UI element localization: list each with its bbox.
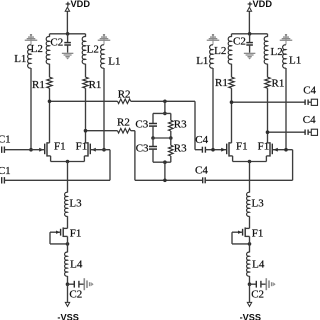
wire VDD stem (right half)	[248, 11, 250, 34]
gate arrow F1 (left half right)	[91, 148, 95, 152]
wire bottom rail right	[205, 179, 292, 181]
wire C2 to ground (left half)	[67, 45, 69, 53]
resistor R1 (left half right)	[83, 77, 88, 88]
svg-text:L2: L2	[87, 44, 99, 56]
svg-text:+VDD: +VDD	[65, 0, 90, 9]
svg-text:L2: L2	[271, 46, 283, 58]
wire L3 to F1 (left half)	[67, 216, 69, 228]
wire C3 branch mid-upper	[152, 126, 154, 138]
wire VDD stem (left half)	[66, 11, 68, 34]
svg-text:C4: C4	[303, 85, 316, 97]
inductor L2 (left half right)	[82, 37, 85, 64]
svg-text:L2: L2	[31, 43, 43, 55]
capacitor C1 (lower)	[1, 177, 3, 183]
wire drain column right (right half)	[267, 88, 269, 143]
svg-text:F1: F1	[70, 227, 82, 239]
junction gate-source tie (right half)	[248, 242, 252, 246]
wire L2-R1 left (right half)	[231, 64, 233, 77]
svg-text:R1: R1	[215, 77, 228, 89]
wire L3 to F1 (right half)	[249, 216, 251, 228]
svg-text:R1: R1	[272, 78, 285, 90]
svg-text:C3: C3	[135, 119, 148, 131]
wire to port upper	[308, 101, 311, 103]
junction L1 left gate (right half)	[211, 148, 215, 152]
wire VSS stem (left half)	[67, 284, 69, 302]
wire C3 branch top	[152, 113, 154, 123]
wire drain column left (left half)	[49, 88, 51, 143]
wire output lower (right half)	[268, 131, 305, 133]
junction L1 right gate (right half)	[284, 148, 288, 152]
gate arrow F1 current source (right half)	[238, 231, 242, 234]
transistor F1 (right half left of pair)	[226, 144, 228, 155]
ground (right) at C2 (right half bottom)	[266, 278, 268, 290]
svg-text:R2: R2	[118, 88, 131, 100]
inductor L2 (right half right)	[264, 37, 267, 64]
resistor R2 (lower)	[118, 128, 131, 133]
junction common source (right half)	[248, 160, 252, 164]
svg-text:C2: C2	[233, 36, 246, 48]
wire corner down to C4 upper	[194, 101, 196, 149]
wire F1 to L4 (left half)	[67, 236, 69, 252]
ground below C2 (left half)	[62, 53, 74, 54]
wire to C2 bottom (left half)	[68, 283, 75, 285]
ground (up) over L1 right (left half)	[103, 34, 105, 35]
capacitor C4 (output lower)	[304, 130, 306, 135]
svg-text:C2: C2	[50, 36, 63, 48]
wire R3 branch mid-lower	[170, 138, 172, 145]
svg-text:F1: F1	[236, 140, 248, 152]
wire C2 stub (right half)	[249, 34, 251, 43]
capacitor C2 (left half bottom)	[73, 281, 75, 288]
wire output upper (right half)	[232, 101, 305, 103]
transistor F1 (left half left of pair)	[44, 144, 46, 155]
capacitor C1 (upper)	[1, 147, 3, 153]
transistor F1 (left half right of pair)	[89, 144, 91, 155]
capacitor C4 (output upper)	[304, 100, 306, 105]
wire C1 lower rail	[4, 179, 110, 181]
junction lower R2 at drain (left half)	[84, 129, 88, 133]
wire lower R2 to corner	[131, 130, 135, 132]
wire upper R2 to corner	[131, 100, 195, 102]
svg-text:F1: F1	[54, 140, 66, 152]
junction network top entry	[163, 100, 167, 104]
junction R3 midpoint	[169, 136, 173, 140]
resistor R1 (left half left)	[47, 77, 52, 88]
inductor L2 (right half left)	[228, 37, 231, 64]
junction L1 left gate (left half)	[29, 148, 33, 152]
wire R3 branch top	[170, 113, 172, 120]
junction output lower at drain	[266, 130, 270, 134]
wire right-gate rise (right half)	[292, 150, 294, 181]
junction upper R2 at drain (left half)	[48, 100, 52, 104]
wire right gate (left half)	[90, 149, 110, 151]
capacitor C4 (upper middle)	[201, 147, 203, 153]
wire C2 to ground (right half)	[249, 45, 251, 53]
wire VDD rail (left half)	[50, 33, 86, 35]
wire L1 right to gate (left half)	[103, 68, 105, 150]
inductor L1 (right half right)	[283, 45, 286, 68]
ground (up) over L1 left (right half)	[212, 34, 214, 35]
inductor L3 (right half)	[247, 192, 250, 216]
svg-text:F1: F1	[76, 140, 88, 152]
wire to port lower	[308, 131, 311, 133]
wire common source (right half)	[233, 161, 267, 163]
wire tail to L3 (left half)	[67, 162, 69, 193]
wire C3 branch mid-lower	[152, 138, 154, 147]
junction C3 midpoint	[151, 136, 155, 140]
gate arrow F1 (left half left)	[39, 148, 43, 152]
resistor R1 (right half right)	[265, 77, 270, 88]
inductor L1 (right half left)	[210, 45, 213, 68]
svg-text:R2: R2	[117, 116, 130, 128]
svg-text:F1: F1	[252, 227, 264, 239]
wire lower R2 drop	[134, 131, 136, 181]
wire C2 to ground (left half bottom)	[79, 283, 84, 285]
wire L2-R1 left (left half)	[49, 64, 51, 77]
gate arrow F1 (right half left)	[221, 148, 225, 152]
wire L4 to VSS node (right half)	[249, 276, 251, 284]
capacitor C2 (right half top)	[246, 42, 253, 44]
VDD arrow (left half)	[65, 7, 69, 11]
wire C2 stub (left half)	[67, 34, 69, 43]
svg-text:L3: L3	[69, 197, 82, 209]
wire L1 left to gate (left half)	[30, 68, 32, 150]
wire common source (left half)	[51, 161, 85, 163]
junction common source (left half)	[66, 160, 70, 164]
wire C1 upper to gate	[4, 149, 44, 151]
gate arrow F1 current source (left half)	[56, 231, 60, 234]
wire network exit	[164, 162, 166, 180]
ground (up) over L1 left (left half)	[30, 34, 32, 35]
wire R3 branch mid-upper	[170, 131, 172, 138]
svg-text:L1: L1	[108, 56, 120, 68]
svg-text:L4: L4	[70, 258, 83, 270]
svg-text:R3: R3	[174, 142, 187, 154]
svg-text:+VDD: +VDD	[247, 0, 272, 9]
transistor F1 current source (left half)	[62, 227, 64, 237]
junction VDD rail (left half)	[66, 32, 70, 36]
wire drain column left (right half)	[231, 88, 233, 143]
junction network top bar	[163, 112, 167, 116]
resistor R3 (upper)	[169, 120, 174, 131]
svg-text:R3: R3	[174, 119, 187, 131]
junction network bottom bar	[163, 160, 167, 164]
capacitor C2 (right half bottom)	[255, 281, 257, 288]
svg-text:F1: F1	[258, 140, 270, 152]
wire C4 upper to right gate	[205, 149, 226, 151]
inductor L2 (left half left)	[46, 37, 49, 64]
svg-text:C2: C2	[69, 288, 82, 300]
svg-text:-VSS: -VSS	[240, 313, 261, 320]
wire L1 right to gate (right half)	[285, 68, 287, 150]
ground (up) over L1 right (right half)	[285, 34, 287, 35]
port (output lower)	[311, 129, 317, 135]
wire rail to L2 left (left half)	[49, 34, 51, 37]
wire C2 to ground (right half bottom)	[261, 283, 266, 285]
wire L1 left to gate (right half)	[212, 68, 214, 150]
wire upper R2 line	[50, 100, 118, 102]
VSS arrow (right half)	[247, 302, 251, 306]
inductor L1 (left half left)	[28, 45, 31, 68]
svg-text:L3: L3	[252, 197, 265, 209]
svg-text:-VSS: -VSS	[57, 313, 78, 320]
VDD arrow (right half)	[247, 7, 251, 11]
wire network bottom bar	[153, 161, 171, 163]
wire right-gate drop (left half)	[109, 150, 111, 181]
wire lower R2 line	[86, 130, 118, 132]
transistor F1 current source (right half)	[244, 227, 246, 237]
wire F1 to L4 (right half)	[249, 236, 251, 252]
inductor L3 (left half)	[65, 192, 68, 216]
junction VDD rail (right half)	[248, 32, 252, 36]
wire to C4 upper	[195, 149, 202, 151]
inductor L1 (left half right)	[101, 45, 104, 68]
junction VSS node (right half)	[248, 282, 252, 286]
wire bottom rail left	[135, 179, 203, 181]
junction output upper at drain	[230, 100, 234, 104]
capacitor C4 (lower middle)	[202, 177, 204, 183]
svg-text:C1: C1	[0, 133, 11, 145]
wire rail to L2 right (left half)	[85, 34, 87, 37]
svg-text:L2: L2	[214, 45, 226, 57]
svg-text:R1: R1	[32, 79, 45, 91]
junction VSS node (left half)	[66, 282, 70, 286]
inductor L4 (right half)	[247, 252, 250, 276]
svg-text:C1: C1	[0, 165, 11, 177]
svg-text:C3: C3	[136, 142, 149, 154]
wire L2-R1 right (left half)	[85, 64, 87, 77]
gate arrow F1 (right half right)	[273, 148, 277, 152]
svg-text:C2: C2	[251, 288, 264, 300]
ground (right) at C2 (left half bottom)	[84, 278, 86, 290]
svg-text:L1: L1	[196, 55, 208, 67]
wire C3 branch bottom	[152, 149, 154, 162]
wire VDD rail (right half)	[232, 33, 268, 35]
wire network top bar	[153, 112, 171, 114]
svg-text:C4: C4	[195, 164, 208, 176]
VSS arrow (left half)	[65, 302, 69, 306]
junction L1 right gate (left half)	[102, 148, 106, 152]
wire network entry	[164, 101, 166, 113]
capacitor C3 (lower)	[149, 146, 157, 148]
svg-text:L1: L1	[289, 55, 301, 67]
svg-text:R1: R1	[89, 79, 102, 91]
wire tail to L3 (right half)	[249, 162, 251, 193]
svg-text:C4: C4	[195, 134, 208, 146]
wire drain column right (left half)	[85, 88, 87, 143]
resistor R2 (upper)	[118, 99, 131, 104]
transistor F1 (right half right of pair)	[271, 144, 273, 155]
svg-text:L4: L4	[252, 258, 265, 270]
wire to C2 bottom (right half)	[250, 283, 257, 285]
wire network mid bar	[153, 137, 171, 139]
svg-text:L1: L1	[14, 53, 26, 65]
wire right gate (right half)	[272, 149, 292, 151]
resistor R1 (right half left)	[229, 77, 234, 88]
ground below C2 (right half)	[244, 53, 256, 54]
capacitor C2 (left half top)	[64, 42, 71, 44]
junction network bottom rail	[163, 179, 167, 183]
wire R3 branch bottom	[170, 156, 172, 162]
port (output upper)	[311, 99, 317, 105]
junction gate-source tie (left half)	[66, 242, 70, 246]
capacitor C3 (upper)	[149, 123, 157, 125]
inductor L4 (left half)	[65, 252, 68, 276]
wire rail to L2 right (right half)	[267, 34, 269, 37]
wire VSS stem (right half)	[249, 284, 251, 302]
svg-text:C4: C4	[303, 114, 316, 126]
resistor R3 (lower)	[169, 145, 174, 156]
wire L2-R1 right (right half)	[267, 64, 269, 77]
wire rail to L2 left (right half)	[231, 34, 233, 37]
wire L4 to VSS node (left half)	[67, 276, 69, 284]
